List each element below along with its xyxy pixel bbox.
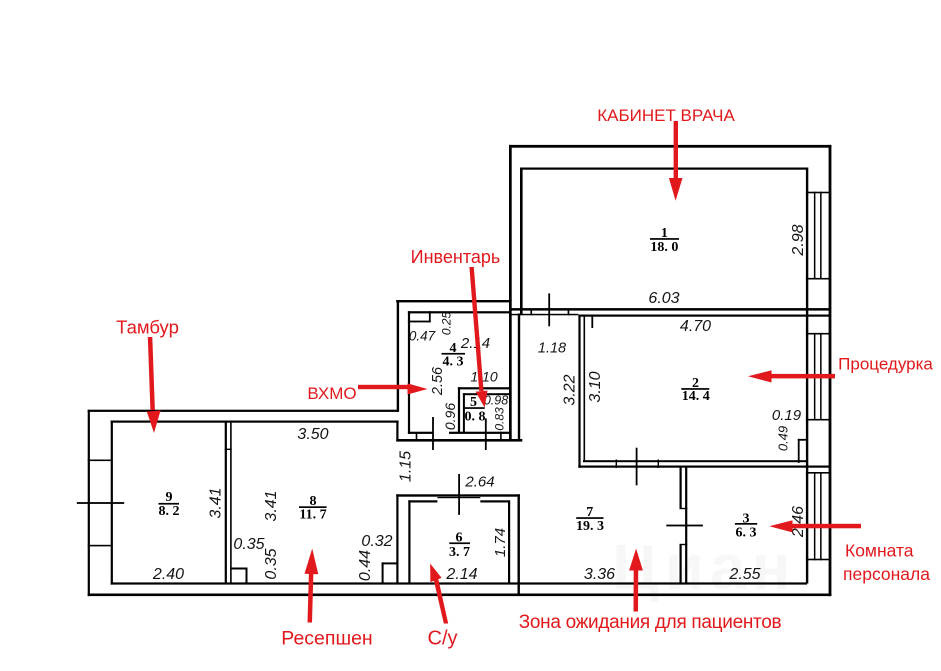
room4 inner left wall [408,311,410,434]
stub below room2 top wall at corner [591,315,593,328]
svg-text:1.18: 1.18 [538,341,566,357]
svg-text:КАБИНЕТ ВРАЧА: КАБИНЕТ ВРАЧА [597,106,735,125]
room4 top inner wall [408,311,510,313]
door jambs wall 7|3 [680,508,688,509]
svg-text:18. 0: 18. 0 [650,240,678,255]
svg-text:Процедурка: Процедурка [838,355,933,374]
wall outer bottom [88,594,832,597]
svg-text:0.32: 0.32 [361,533,392,550]
wall block45 outer bottom [396,439,522,442]
room8 bottom-left notch [246,568,248,584]
svg-text:0.25: 0.25 [440,311,454,335]
svg-text:0.19: 0.19 [772,407,802,424]
corridor left wall lower [518,314,520,441]
svg-text:0.35: 0.35 [233,536,264,553]
svg-text:14. 4: 14. 4 [682,389,710,404]
arrow to room2 procedure [771,374,835,379]
arrow to room5 inventory [469,267,483,391]
arrow to room8 reception [308,573,314,623]
svg-text:4.70: 4.70 [680,318,711,335]
svg-text:0.47: 0.47 [409,329,436,344]
room5 box inner [463,393,465,433]
svg-text:1.15: 1.15 [398,451,415,482]
svg-text:2.14: 2.14 [445,566,477,583]
door tick room6 [458,474,460,515]
svg-text:С/у: С/у [428,628,458,650]
room4 duct box 0.47x0.25 [408,321,431,323]
svg-text:2.56: 2.56 [430,366,446,396]
svg-text:3.41: 3.41 [263,490,280,521]
svg-text:2.98: 2.98 [790,224,807,256]
wall room2 top [578,315,830,317]
watermark [612,531,796,603]
wall room1 top inner [520,168,808,170]
svg-text:3.22: 3.22 [562,374,579,405]
svg-text:4. 3: 4. 3 [443,355,464,370]
svg-text:1.74: 1.74 [492,528,509,557]
door tick room3 [666,525,703,527]
door tick room2 [636,448,638,486]
wall between rooms 1 and 2 thick [509,308,831,311]
wall 9|8 double [225,421,227,584]
wall rooms 9/8 top inner [111,421,399,423]
wall outer top-left block [88,410,399,412]
door tick room1 [548,293,550,326]
room6 inner box [408,500,410,583]
left wall rungs and entrance tick [88,460,111,462]
svg-text:3.36: 3.36 [584,566,615,583]
arrow VHMO [358,385,408,389]
window vertical panes [814,192,816,280]
wall 7|3 left line with door gap [680,466,682,509]
svg-text:3. 7: 3. 7 [449,545,470,560]
wall line B x521 upper [520,168,523,315]
svg-text:3.10: 3.10 [587,371,604,402]
wall outer right [829,145,832,596]
block45 inner bottom with door gap [408,432,433,434]
svg-text:0.83: 0.83 [493,407,507,431]
svg-text:0. 8: 0. 8 [465,410,486,425]
wall block45 outer top [396,300,511,302]
svg-text:0.49: 0.49 [776,426,791,451]
room6 block outer top [396,494,520,496]
svg-text:0.98: 0.98 [484,394,508,408]
svg-text:Тамбур: Тамбур [116,317,179,338]
window sills right wall [806,192,830,194]
arrow to room1 doctors office [674,121,678,179]
svg-text:Зона ожидания для пациентов: Зона ожидания для пациентов [519,612,782,633]
svg-text:6. 3: 6. 3 [736,525,757,540]
arrow to room3 staff [792,524,861,529]
wall outer left [88,410,90,596]
svg-text:19. 3: 19. 3 [576,519,604,534]
svg-text:Инвентарь: Инвентарь [411,247,501,267]
wall room2 left double [578,315,580,468]
arrow to room7 waiting [634,570,639,612]
svg-text:3.41: 3.41 [208,487,225,518]
wall 7|3 right line [685,466,687,584]
svg-text:11. 7: 11. 7 [299,508,326,523]
svg-text:0.44: 0.44 [357,550,374,581]
pier room2 bottom-right 0.19x0.49 [798,439,800,463]
svg-text:ВХМО: ВХМО [307,384,356,403]
wall rooms 2|7 upper face [583,460,807,462]
door ticks rooms 4 and 5 [432,417,434,450]
wall line A x510 [509,145,512,442]
wall room9 left inner [111,421,113,585]
jog at block45 inner bottom [416,433,418,440]
svg-text:Ресепшен: Ресепшен [281,628,372,650]
svg-text:2.46: 2.46 [790,506,807,538]
wall block45 outer left [397,301,399,412]
wall inner bottom line [111,582,807,584]
svg-text:персонала: персонала [843,564,930,584]
svg-text:Комната: Комната [845,541,914,561]
wall rooms 2|7 lower face + room3 top [578,466,830,468]
wall room8 right upper [396,421,398,442]
room6 block outer right [518,494,520,593]
wall room8 right lower / room6 block left [396,494,398,583]
svg-text:2.40: 2.40 [152,566,184,583]
corridor door lower face line [510,314,579,316]
svg-text:1.10: 1.10 [470,369,497,385]
corridor door jamb stubs [530,310,532,315]
svg-text:0.96: 0.96 [442,403,458,430]
svg-text:8. 2: 8. 2 [159,504,180,519]
svg-text:6.03: 6.03 [648,290,679,307]
room8 bottom-right notch [382,562,384,583]
svg-text:2.55: 2.55 [728,566,760,583]
door jambs wall 2|7 [616,460,617,469]
room5 box outer [458,387,460,433]
svg-text:3.50: 3.50 [297,426,328,443]
arrow to room9 vestibule [148,337,155,410]
wall right inner face x807 [806,168,808,584]
svg-text:2.64: 2.64 [464,474,494,491]
arrow to room6 wc [434,579,448,624]
svg-text:0.35: 0.35 [263,548,280,579]
wall outer top of upper block [509,145,831,148]
